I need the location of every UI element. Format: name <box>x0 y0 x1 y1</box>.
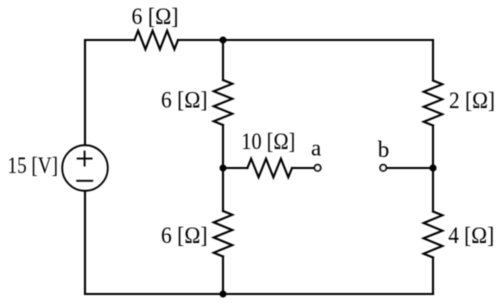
voltage source V1 15V <box>62 145 108 191</box>
wire right rail top <box>432 40 434 81</box>
wire 10-ohm right lead to terminal a <box>292 167 314 169</box>
wire bottom-right horizontal <box>223 293 433 295</box>
wire left rail upper <box>84 40 86 145</box>
resistor R2 6-ohm middle upper <box>214 80 233 125</box>
wire bottom-left horizontal <box>85 293 223 295</box>
svg-text:6 [Ω]: 6 [Ω] <box>161 223 208 248</box>
svg-text:10 [Ω]: 10 [Ω] <box>241 129 295 154</box>
wire top-left horizontal <box>85 39 135 41</box>
resistor R4 2-ohm right upper <box>424 81 443 126</box>
resistor R5 4-ohm right lower <box>424 212 443 258</box>
node junction dot right b <box>429 164 436 171</box>
wire top-right horizontal <box>223 39 433 41</box>
terminal a open circle <box>315 165 321 171</box>
terminal b open circle <box>380 165 386 171</box>
svg-text:6 [Ω]: 6 [Ω] <box>161 88 208 113</box>
minus sign <box>77 180 92 182</box>
wire terminal b to right rail <box>387 167 433 169</box>
node junction dot bottom middle <box>220 291 227 298</box>
wire middle rail top <box>222 40 224 80</box>
wire 10-ohm left lead <box>223 167 247 169</box>
plus sign <box>78 152 92 166</box>
wire middle rail between node and R3 <box>222 168 224 211</box>
svg-text:a: a <box>311 136 321 161</box>
wire right rail bottom <box>432 258 434 295</box>
node junction dot top middle <box>220 37 227 44</box>
wire middle rail between R2 and node <box>222 125 224 168</box>
wire right rail between node b and R5 <box>432 168 434 212</box>
resistor R3 6-ohm middle lower <box>214 211 233 257</box>
wire top-middle horizontal <box>178 39 223 41</box>
svg-text:2 [Ω]: 2 [Ω] <box>449 88 495 113</box>
svg-text:15 [V]: 15 [V] <box>8 153 59 178</box>
resistor R1 6-ohm horizontal top <box>135 31 179 50</box>
resistor R6 10-ohm horizontal <box>247 159 292 178</box>
wire right rail between R4 and node b <box>432 126 434 169</box>
svg-text:b: b <box>378 137 390 162</box>
wire left rail lower <box>84 191 86 294</box>
node junction dot middle <box>220 165 227 172</box>
svg-text:6 [Ω]: 6 [Ω] <box>132 4 179 29</box>
svg-text:4 [Ω]: 4 [Ω] <box>448 223 494 248</box>
wire middle rail bottom <box>222 257 224 295</box>
